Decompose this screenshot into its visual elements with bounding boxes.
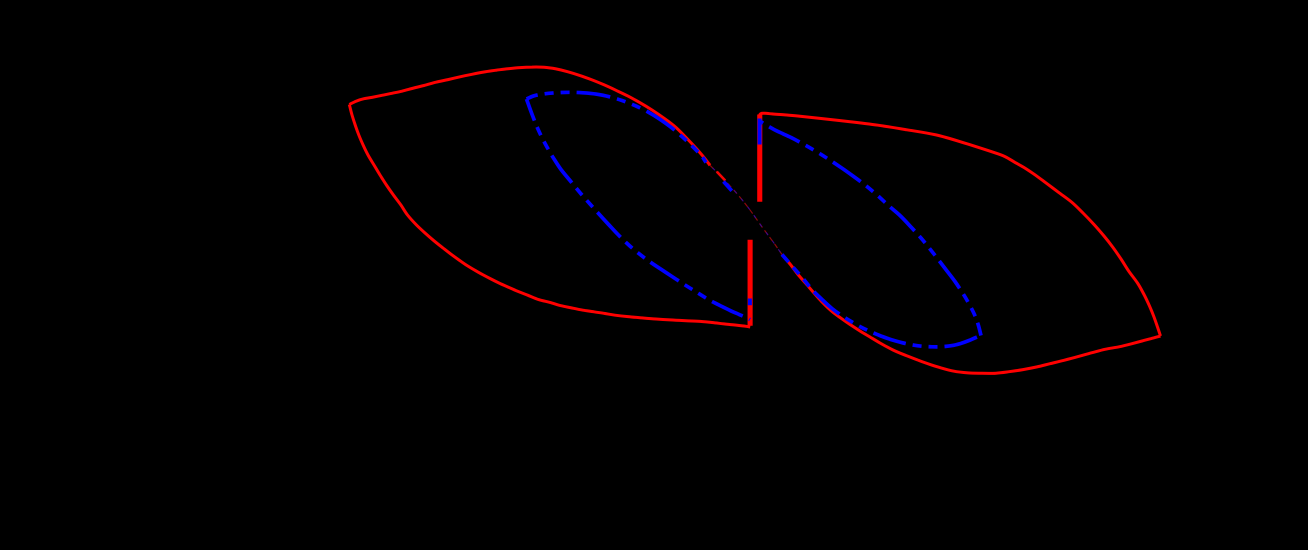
blue dash on upper jump bar bbox=[758, 119, 762, 145]
blue curve: right lens top edge (dash-dot-dot) bbox=[760, 121, 981, 336]
faint blue dashes on diagonal bbox=[710, 165, 782, 254]
red bright dash on diagonal after left-top edge bbox=[717, 172, 725, 181]
blue curve: right lens bottom edge (dash-dot-dot) bbox=[782, 255, 981, 347]
blue bright dash on diagonal bbox=[724, 182, 732, 191]
red curve: right lobe bottom edge bbox=[782, 255, 1161, 374]
red curve: right lobe top edge bbox=[760, 113, 1161, 336]
blue curve: left lens top edge (dash-dot-dot) bbox=[527, 92, 707, 162]
red curve: lower jump bar bbox=[748, 240, 753, 326]
red curve: left lobe bottom edge bbox=[349, 105, 750, 328]
faint red diagonal through crossing bbox=[710, 165, 782, 254]
blue dash on lower jump bar bbox=[748, 299, 752, 306]
red curve: left lobe top edge bbox=[349, 67, 710, 165]
red curve: upper jump bar bbox=[757, 115, 762, 202]
blue curve: left lens bottom edge (dash-dot-dot) bbox=[527, 99, 751, 320]
